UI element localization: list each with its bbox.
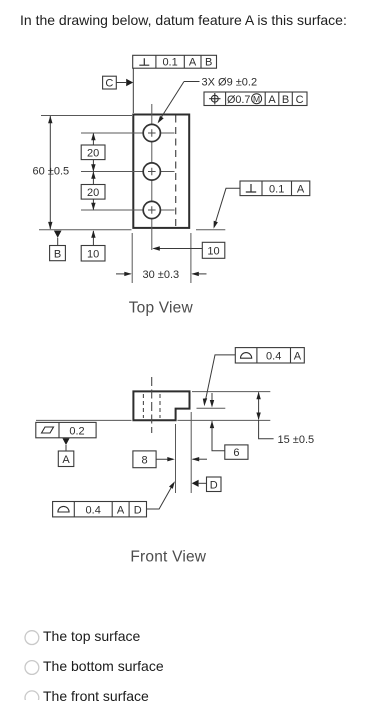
dim 30 right arrow [193,273,207,275]
dim 8 right arrow [193,458,208,460]
hole 2 horizontal center line [81,171,175,173]
hole 1 horizontal center line [81,132,175,134]
hole 3 center cross [148,206,156,214]
svg-text:M: M [253,94,260,104]
perpendicularity symbol [246,184,256,192]
option 2: The bottom surface [43,658,164,674]
dim 8 arrow to step edge ext [156,458,173,460]
datum C stem [116,82,126,84]
front center line [151,377,153,433]
dim 10 (right, to hole center line) [154,248,203,250]
right edge extension line (down) [190,412,192,493]
svg-text:B: B [282,94,289,106]
hidden hole line left [142,394,144,418]
chain dim line box-hole2 [92,160,94,171]
svg-text:A: A [297,184,305,196]
dim line 10 below bottom line [92,231,94,246]
question text [20,12,347,28]
hole 3 [143,201,160,218]
svg-text:Ø0.7: Ø0.7 [227,94,250,106]
svg-text:C: C [296,94,304,106]
dim 15 line with arrows [258,392,260,419]
FCF4 profile 0.4 A D (bottom) [53,502,147,517]
FCF1 perpendicularity 0.1 A B [133,55,217,68]
60 dim extension line top [41,115,132,117]
svg-text:A: A [62,454,70,466]
datum D box [207,477,222,492]
svg-text:D: D [210,479,218,491]
datum A stem [65,445,67,451]
position symbol [209,93,220,104]
hidden hole line right [159,394,161,418]
datum B stem [57,238,59,246]
extension line from FCF1 down to part corner [132,68,134,113]
datum B triangle [54,231,62,238]
svg-text:20: 20 [87,187,99,199]
bottom edge extension (right of part) [196,229,225,231]
step edge extension line (down) [175,424,177,493]
box 20 (first) [81,145,105,160]
vertical center line of holes [151,104,153,250]
FCF5 profile 0.4 A (top right) [235,348,304,363]
option 1: The top surface [43,628,140,644]
part outline (top view rectangle) [133,115,189,228]
dim 15 elbow [259,420,274,439]
3X hole note leader [184,81,200,83]
perpendicularity symbol [139,58,149,65]
svg-text:20: 20 [87,148,99,160]
hole 1 [143,124,160,141]
svg-text:D: D [134,504,142,516]
extension line below part (right edge) [190,233,192,283]
chain dim line box2-hole3 [92,199,94,209]
datum D stem [199,482,207,484]
step surface extension (right) [197,407,226,409]
60 dim extension line bottom (left of part) [39,229,132,231]
bottom edge extension (left) [36,419,132,421]
dim 30 left arrow [116,273,131,275]
svg-text:Top View: Top View [129,299,194,316]
svg-text:A: A [189,57,197,69]
FCF2 position Ø0.7(M) A B C [204,92,307,106]
svg-text:0.4: 0.4 [266,351,281,363]
svg-text:3X Ø9 ±0.2: 3X Ø9 ±0.2 [202,77,258,89]
bottom edge extension (right) [178,419,271,421]
hole 2 [143,163,160,180]
svg-text:60 ±0.5: 60 ±0.5 [33,166,70,178]
option 3: The front surface [43,688,149,704]
svg-text:15 ±0.5: 15 ±0.5 [278,434,315,446]
front view outline (stepped block) [133,391,189,420]
svg-text:10: 10 [87,248,99,260]
FCF5 leader [205,355,235,403]
svg-text:8: 8 [141,455,147,467]
svg-text:Front View: Front View [130,548,206,565]
svg-text:6: 6 [233,447,239,459]
FCF3 perpendicularity 0.1 A (right of top view) [240,181,310,196]
svg-text:B: B [54,248,61,260]
svg-text:C: C [105,78,113,90]
datum A triangle [62,438,69,445]
box 10 (right) [202,242,225,258]
FCF6 flatness 0.2 [36,422,96,437]
chain dim line hole2-box2 [92,172,94,184]
radio button option 2 [25,661,39,675]
flatness symbol [42,427,54,433]
box 10 (left bottom) [81,246,105,262]
box 20 (second) [81,185,105,200]
datum C triangle [126,79,133,86]
datum B box [50,246,66,261]
chain dim line hole1-box [92,134,94,145]
svg-text:A: A [268,94,276,106]
svg-text:A: A [294,351,302,363]
hole 1 center cross [148,129,156,137]
datum C box [103,76,117,89]
svg-text:A: A [117,504,125,516]
top edge extension (right) [192,391,270,393]
extension line below part (left edge) [131,233,133,283]
radio button option 3 [25,691,39,704]
svg-text:0.1: 0.1 [269,184,284,196]
hole 3 horizontal center line [81,209,175,211]
svg-text:B: B [205,57,212,69]
radio button option 1 [25,631,39,645]
svg-text:0.4: 0.4 [86,504,101,516]
FCF4 leader [147,484,174,510]
profile of surface symbol [241,353,252,359]
hole 2 center cross [148,168,156,176]
dim 6 upper arrow [211,393,213,400]
FCF3 leader [214,188,240,226]
dim 6 lower arrow with elbow [212,421,225,451]
svg-text:0.2: 0.2 [69,425,84,437]
MMC modifier circle M [252,94,262,104]
datum D triangle [192,480,199,487]
svg-text:0.1: 0.1 [162,57,177,69]
datum A box [58,451,74,467]
svg-text:30 ±0.3: 30 ±0.3 [143,269,180,281]
box 6 [225,445,248,459]
box 8 [133,451,156,468]
60 dimension line with arrows [49,116,51,229]
svg-text:10: 10 [207,246,219,258]
profile of surface symbol [58,506,69,512]
hidden step edge (dashed line) [175,116,177,228]
